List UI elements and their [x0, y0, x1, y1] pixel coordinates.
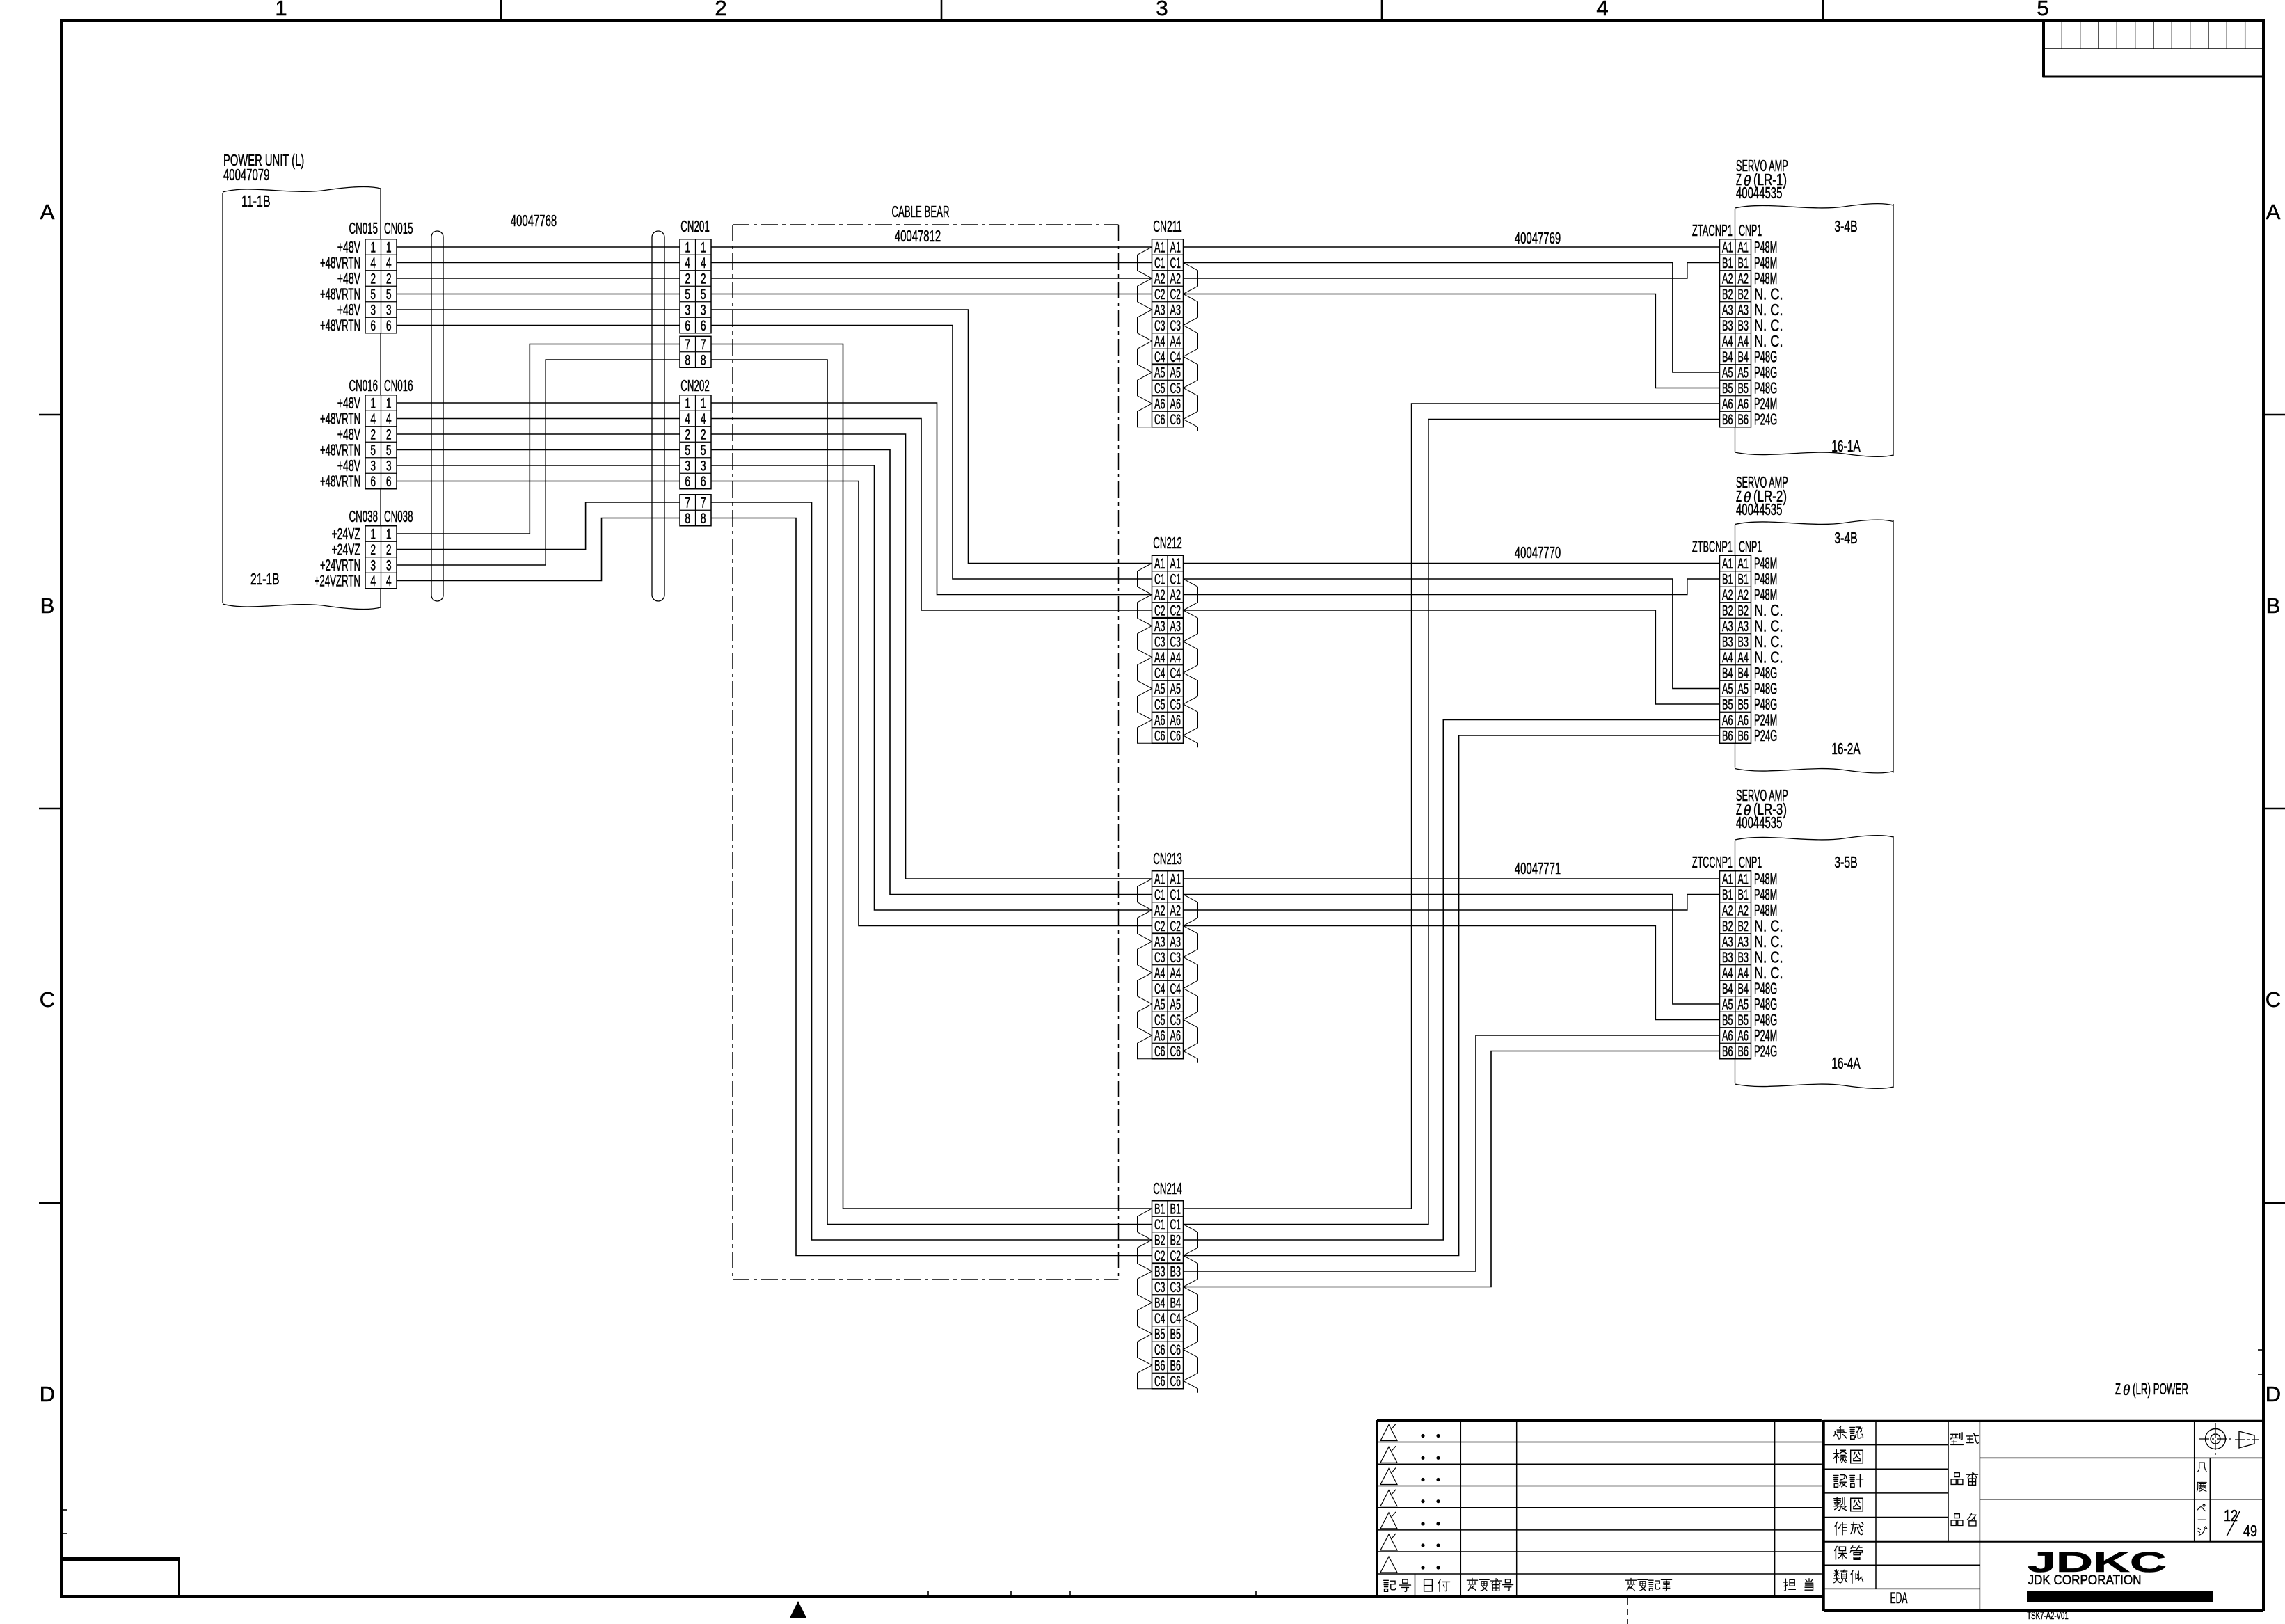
- svg-text:4: 4: [386, 255, 392, 271]
- servo amp Z0(LR-3) box 40044535: [1735, 836, 1894, 840]
- svg-text:C3: C3: [1154, 950, 1165, 966]
- svg-text:A4: A4: [1738, 966, 1749, 982]
- power unit (L) box 40047079: [223, 187, 381, 192]
- svg-text:4: 4: [1596, 0, 1608, 20]
- svg-text:C1: C1: [1170, 887, 1181, 903]
- svg-text:A3: A3: [1170, 303, 1181, 319]
- svg-text:A3: A3: [1154, 303, 1165, 319]
- svg-text:(LR) POWER: (LR) POWER: [2133, 1380, 2188, 1398]
- svg-text:1: 1: [386, 240, 392, 256]
- svg-text:B5: B5: [1722, 1012, 1733, 1028]
- svg-text:CNP1: CNP1: [1739, 221, 1762, 239]
- svg-text:8: 8: [701, 353, 706, 369]
- svg-text:A6: A6: [1722, 713, 1733, 729]
- svg-text:B5: B5: [1170, 1327, 1181, 1343]
- top zone ticks: [500, 0, 502, 21]
- svg-text:A4: A4: [1722, 650, 1733, 666]
- svg-text:A1: A1: [1738, 556, 1749, 572]
- svg-text:B5: B5: [1738, 697, 1749, 713]
- svg-text:7: 7: [685, 337, 690, 353]
- svg-text:C6: C6: [1170, 1044, 1181, 1060]
- svg-text:B4: B4: [1722, 349, 1733, 365]
- svg-text:B6: B6: [1738, 412, 1749, 428]
- svg-text:A3: A3: [1170, 619, 1181, 635]
- label 記号: [1384, 1580, 1396, 1591]
- svg-text:C: C: [40, 987, 55, 1012]
- svg-text:B5: B5: [1722, 697, 1733, 713]
- svg-text:4: 4: [701, 255, 706, 271]
- wire C1 to servo A5: [1184, 263, 1720, 373]
- svg-text:C5: C5: [1170, 381, 1181, 397]
- right border fold ticks: [2258, 1349, 2263, 1351]
- svg-text:A3: A3: [1722, 619, 1733, 635]
- svg-text:3: 3: [386, 558, 392, 574]
- svg-text:A3: A3: [1722, 934, 1733, 950]
- svg-text:B2: B2: [1722, 603, 1733, 619]
- svg-text:CN038: CN038: [349, 507, 379, 525]
- wire C1 to servo A5: [1184, 895, 1720, 1005]
- wires CN201 1,4,2,5 to CN211 A1,C1,A2,C2: [711, 246, 1152, 248]
- svg-text:40044535: 40044535: [1736, 813, 1782, 831]
- svg-text:A1: A1: [1722, 556, 1733, 572]
- wire CN202-2 to CN213 A1: [711, 434, 1152, 879]
- svg-text:4: 4: [685, 255, 690, 271]
- cable bear enclosure 40047812: [733, 224, 1119, 225]
- svg-text:C6: C6: [1170, 1342, 1181, 1358]
- svg-text:A5: A5: [1722, 365, 1733, 381]
- svg-text:C1: C1: [1154, 1217, 1165, 1233]
- svg-text:CN212: CN212: [1153, 534, 1182, 552]
- svg-text:ZTACNP1: ZTACNP1: [1692, 221, 1733, 239]
- svg-text:B4: B4: [1738, 666, 1749, 682]
- wire C2 to servo B5: [1184, 294, 1720, 388]
- svg-text:A4: A4: [1722, 966, 1733, 982]
- CN214 twisted pair symbols: [1138, 1209, 1152, 1389]
- label 品名: [1951, 1514, 1963, 1526]
- svg-text:P24G: P24G: [1754, 1042, 1777, 1060]
- svg-text:4: 4: [386, 573, 392, 589]
- svg-text:6: 6: [386, 474, 392, 490]
- svg-text:C4: C4: [1170, 981, 1181, 997]
- wire CN038-3 to CN201-8: [397, 360, 680, 565]
- svg-text:A3: A3: [1154, 619, 1165, 635]
- svg-text:C6: C6: [1154, 1342, 1165, 1358]
- wire CN214 C1 to LR-1 B6: [1184, 420, 1720, 1225]
- svg-text:A4: A4: [1154, 334, 1165, 350]
- svg-text:A: A: [2266, 200, 2281, 224]
- svg-text:40044535: 40044535: [1736, 500, 1782, 518]
- svg-text:A6: A6: [1738, 713, 1749, 729]
- svg-text:C3: C3: [1170, 950, 1181, 966]
- svg-text:3-5B: 3-5B: [1834, 853, 1857, 871]
- svg-text:40047812: 40047812: [895, 227, 941, 245]
- svg-text:B3: B3: [1738, 635, 1749, 651]
- svg-text:B1: B1: [1738, 572, 1749, 588]
- svg-text:A6: A6: [1170, 713, 1181, 729]
- svg-text:16-1A: 16-1A: [1831, 437, 1861, 455]
- connector CN015 pin table: [365, 239, 397, 333]
- wire A1 straight into servo (level 809.5): [1184, 563, 1720, 564]
- svg-text:B1: B1: [1722, 887, 1733, 903]
- svg-text:A2: A2: [1722, 271, 1733, 287]
- svg-text:Z: Z: [2115, 1380, 2121, 1398]
- revision row triangles and date dots: [1380, 1425, 1397, 1441]
- svg-text:21-1B: 21-1B: [250, 570, 280, 588]
- svg-text:C6: C6: [1154, 1374, 1165, 1390]
- wire CN201-8 to CN214 C1: [711, 360, 1152, 1225]
- svg-text:1: 1: [701, 396, 706, 412]
- label 型式: [1950, 1433, 1963, 1445]
- svg-text:A5: A5: [1170, 681, 1181, 697]
- svg-text:B1: B1: [1738, 887, 1749, 903]
- svg-text:B3: B3: [1738, 318, 1749, 334]
- svg-text:A3: A3: [1738, 303, 1749, 319]
- svg-text:B3: B3: [1154, 1264, 1165, 1280]
- svg-text:C2: C2: [1154, 603, 1165, 619]
- wire CN214 B1 to LR-1 A6: [1184, 404, 1720, 1209]
- svg-text:2: 2: [386, 542, 392, 558]
- svg-text:C1: C1: [1170, 255, 1181, 271]
- svg-text:CN016: CN016: [384, 376, 413, 395]
- svg-text:4: 4: [685, 411, 690, 427]
- svg-text:A: A: [40, 200, 55, 224]
- svg-text:5: 5: [370, 287, 376, 303]
- svg-text:C4: C4: [1154, 1311, 1165, 1327]
- svg-text:B3: B3: [1738, 950, 1749, 966]
- bottom border fold ticks: [927, 1591, 929, 1597]
- svg-text:3: 3: [370, 303, 376, 319]
- svg-text:3: 3: [685, 303, 690, 319]
- svg-text:4: 4: [701, 411, 706, 427]
- svg-text:C5: C5: [1154, 381, 1165, 397]
- svg-text:C2: C2: [1170, 1248, 1181, 1264]
- svg-text:A5: A5: [1170, 365, 1181, 381]
- svg-text:A3: A3: [1154, 934, 1165, 950]
- svg-text:A6: A6: [1738, 1028, 1749, 1044]
- title block revision table: [1377, 1419, 1822, 1422]
- svg-text:C3: C3: [1154, 1280, 1165, 1296]
- svg-text:B2: B2: [1722, 918, 1733, 934]
- wire CN202-1 to CN212 A2: [711, 403, 1152, 595]
- wire A2 to servo B1: [1184, 895, 1720, 911]
- connector CN211 pin table: [1152, 239, 1184, 427]
- svg-text:A2: A2: [1738, 271, 1749, 287]
- wire A2 to servo B1: [1184, 263, 1720, 279]
- svg-text:A2: A2: [1738, 903, 1749, 919]
- svg-text:CN016: CN016: [349, 376, 379, 395]
- svg-text:A4: A4: [1738, 650, 1749, 666]
- svg-text:B3: B3: [1722, 950, 1733, 966]
- svg-text:P24G: P24G: [1754, 726, 1777, 745]
- svg-text:A1: A1: [1154, 872, 1165, 888]
- svg-text:A4: A4: [1738, 334, 1749, 350]
- svg-text:CN015: CN015: [349, 219, 379, 237]
- svg-text:A6: A6: [1722, 397, 1733, 413]
- svg-text:C3: C3: [1170, 318, 1181, 334]
- svg-text:16-2A: 16-2A: [1831, 740, 1861, 758]
- svg-text:B5: B5: [1738, 381, 1749, 397]
- CN213 twisted pair symbols: [1138, 879, 1152, 1059]
- label 製図: [1834, 1497, 1847, 1511]
- wire CN214 C2 to LR-2 B6: [1184, 735, 1720, 1256]
- svg-text:2: 2: [685, 271, 690, 287]
- svg-text:CN211: CN211: [1153, 217, 1182, 235]
- svg-text:+48VRTN: +48VRTN: [320, 317, 360, 335]
- svg-text:A2: A2: [1722, 587, 1733, 603]
- svg-text:A5: A5: [1722, 681, 1733, 697]
- svg-text:C2: C2: [1170, 918, 1181, 934]
- svg-text:ZTBCNP1: ZTBCNP1: [1692, 538, 1733, 556]
- svg-text:5: 5: [701, 287, 706, 303]
- wire CN214 C3 to LR-3 B6: [1184, 1051, 1720, 1287]
- svg-text:A4: A4: [1170, 334, 1181, 350]
- svg-text:P24G: P24G: [1754, 411, 1777, 429]
- wire CN038-1 to CN201-7: [397, 344, 680, 534]
- svg-text:B1: B1: [1722, 255, 1733, 271]
- wire CN202-3 to CN213 A2: [711, 465, 1152, 910]
- svg-text:C: C: [2266, 987, 2281, 1012]
- svg-text:8: 8: [685, 511, 690, 527]
- servo amp Z0(LR-1) box 40044535: [1735, 204, 1894, 208]
- svg-text:A2: A2: [1738, 587, 1749, 603]
- svg-text:CN202: CN202: [680, 376, 710, 395]
- svg-text:C5: C5: [1154, 1012, 1165, 1028]
- svg-text:B5: B5: [1154, 1327, 1165, 1343]
- svg-text:C4: C4: [1170, 666, 1181, 682]
- svg-text:B3: B3: [1722, 318, 1733, 334]
- label 類似: [1834, 1570, 1847, 1583]
- svg-text:C6: C6: [1154, 729, 1165, 745]
- svg-text:B4: B4: [1154, 1296, 1165, 1312]
- svg-text:A3: A3: [1738, 619, 1749, 635]
- CN211 twisted pair symbols: [1138, 247, 1152, 427]
- servo amp Z0(LR-2) box 40044535: [1735, 520, 1894, 524]
- svg-text:16-4A: 16-4A: [1831, 1054, 1861, 1072]
- svg-text:40047768: 40047768: [511, 212, 557, 230]
- svg-text:49: 49: [2243, 1522, 2257, 1540]
- svg-text:C5: C5: [1170, 1012, 1181, 1028]
- svg-text:1: 1: [370, 527, 376, 543]
- svg-text:1: 1: [386, 527, 392, 543]
- svg-text:C4: C4: [1170, 1311, 1181, 1327]
- svg-text:1: 1: [685, 240, 690, 256]
- svg-text:A1: A1: [1722, 240, 1733, 256]
- logo black bar: [2027, 1591, 2213, 1602]
- svg-text:A2: A2: [1170, 903, 1181, 919]
- svg-text:40047771: 40047771: [1515, 859, 1561, 877]
- svg-text:4: 4: [370, 573, 376, 589]
- svg-text:6: 6: [701, 318, 706, 334]
- svg-text:6: 6: [370, 474, 376, 490]
- svg-text:A6: A6: [1170, 1028, 1181, 1044]
- svg-text:C4: C4: [1154, 981, 1165, 997]
- svg-text:C2: C2: [1154, 918, 1165, 934]
- label 担当: [1784, 1579, 1796, 1591]
- third angle projection symbol: [2211, 1434, 2220, 1444]
- svg-text:C1: C1: [1170, 572, 1181, 588]
- svg-text:B6: B6: [1722, 729, 1733, 745]
- svg-text:EDA: EDA: [1890, 1589, 1908, 1607]
- svg-text:B6: B6: [1738, 1044, 1749, 1060]
- wire C1 to servo A5: [1184, 579, 1720, 689]
- svg-text:4: 4: [370, 255, 376, 271]
- svg-text:B6: B6: [1170, 1358, 1181, 1374]
- wire CN201-3 to CN212 A1: [711, 310, 1152, 564]
- svg-text:B4: B4: [1722, 666, 1733, 682]
- bottom-left block: [61, 1558, 179, 1597]
- wire CN214 B2 to LR-2 A6: [1184, 720, 1720, 1241]
- svg-text:B2: B2: [1738, 287, 1749, 303]
- svg-text:A5: A5: [1738, 997, 1749, 1013]
- top-right page index table: [2044, 21, 2263, 77]
- svg-text:C6: C6: [1170, 1374, 1181, 1390]
- svg-text:B1: B1: [1170, 1202, 1181, 1218]
- svg-text:C1: C1: [1170, 1217, 1181, 1233]
- wire CN214 B3 to LR-3 A6: [1184, 1035, 1720, 1271]
- wire CN038-2 to CN202-7: [397, 502, 680, 550]
- wire CN202-8 to CN214 C2: [711, 518, 1152, 1256]
- svg-text:5: 5: [685, 287, 690, 303]
- svg-text:B3: B3: [1722, 635, 1733, 651]
- label 承認: [1834, 1426, 1847, 1439]
- svg-text:A6: A6: [1738, 397, 1749, 413]
- svg-text:D: D: [40, 1382, 55, 1406]
- svg-text:A4: A4: [1154, 650, 1165, 666]
- svg-text:CN015: CN015: [384, 219, 413, 237]
- connector CN213 pin table: [1152, 871, 1184, 1059]
- svg-text:C2: C2: [1154, 287, 1165, 303]
- label 保管: [1835, 1546, 1847, 1559]
- svg-text:1: 1: [685, 396, 690, 412]
- wire A2 to servo B1: [1184, 579, 1720, 595]
- svg-text:A3: A3: [1722, 303, 1733, 319]
- svg-text:3: 3: [386, 459, 392, 475]
- svg-text:B2: B2: [1722, 287, 1733, 303]
- svg-text:3: 3: [685, 459, 690, 475]
- svg-text:A1: A1: [1170, 556, 1181, 572]
- svg-text:TSK7-A2-V01: TSK7-A2-V01: [2027, 1610, 2068, 1622]
- svg-text:1: 1: [701, 240, 706, 256]
- fold mark dashed line below title block: [1627, 1598, 1628, 1624]
- svg-text:A6: A6: [1154, 397, 1165, 413]
- svg-text:5: 5: [701, 443, 706, 459]
- svg-text:CN214: CN214: [1153, 1179, 1182, 1197]
- svg-text:A5: A5: [1154, 997, 1165, 1013]
- svg-text:D: D: [2266, 1382, 2281, 1406]
- svg-text:40044535: 40044535: [1736, 184, 1782, 202]
- svg-text:B2: B2: [1170, 1233, 1181, 1249]
- svg-text:C4: C4: [1154, 666, 1165, 682]
- svg-text:A2: A2: [1722, 903, 1733, 919]
- svg-text:B: B: [2266, 594, 2281, 618]
- svg-text:2: 2: [701, 427, 706, 443]
- svg-text:C4: C4: [1170, 349, 1181, 365]
- svg-text:2: 2: [386, 427, 392, 443]
- svg-text:6: 6: [685, 474, 690, 490]
- connector CN212 pin table: [1152, 555, 1184, 743]
- svg-text:JDK CORPORATION: JDK CORPORATION: [2028, 1573, 2142, 1588]
- wire C2 to servo B5: [1184, 610, 1720, 704]
- cable 40047768 left sleeve: [431, 231, 443, 601]
- connector CN214 pin table: [1152, 1201, 1184, 1389]
- svg-text:5: 5: [386, 443, 392, 459]
- svg-text:B: B: [40, 594, 55, 618]
- svg-text:C2: C2: [1170, 287, 1181, 303]
- svg-text:11-1B: 11-1B: [241, 192, 271, 210]
- svg-text:3-4B: 3-4B: [1834, 529, 1857, 547]
- svg-text:A1: A1: [1738, 872, 1749, 888]
- svg-text:B6: B6: [1722, 1044, 1733, 1060]
- svg-text:3: 3: [1156, 0, 1168, 20]
- svg-text:2: 2: [370, 427, 376, 443]
- page ページ cell: [2198, 1504, 2206, 1511]
- svg-text:6: 6: [685, 318, 690, 334]
- svg-text:+48VRTN: +48VRTN: [320, 472, 360, 491]
- svg-text:A4: A4: [1722, 334, 1733, 350]
- svg-text:A5: A5: [1738, 681, 1749, 697]
- svg-text:B5: B5: [1738, 1012, 1749, 1028]
- svg-text:C2: C2: [1170, 603, 1181, 619]
- svg-text:CN201: CN201: [680, 217, 710, 235]
- svg-text:40047079: 40047079: [223, 166, 269, 184]
- svg-text:CN213: CN213: [1153, 850, 1182, 868]
- svg-text:4: 4: [370, 411, 376, 427]
- svg-text:C5: C5: [1170, 697, 1181, 713]
- servo LR-3 pin table: [1720, 871, 1751, 1059]
- svg-text:A2: A2: [1154, 271, 1165, 287]
- svg-text:B4: B4: [1170, 1296, 1181, 1312]
- svg-text:40047769: 40047769: [1515, 229, 1561, 247]
- svg-text:B2: B2: [1154, 1233, 1165, 1249]
- wire CN202-4 to CN212 C2: [711, 419, 1152, 611]
- svg-text:B4: B4: [1738, 349, 1749, 365]
- svg-text:C6: C6: [1154, 412, 1165, 428]
- svg-text:A2: A2: [1154, 903, 1165, 919]
- svg-text:A1: A1: [1170, 240, 1181, 256]
- svg-text:B6: B6: [1722, 412, 1733, 428]
- svg-text:+24VZRTN: +24VZRTN: [315, 572, 360, 590]
- svg-text:C3: C3: [1154, 635, 1165, 651]
- svg-text:A2: A2: [1154, 587, 1165, 603]
- svg-text:40047770: 40047770: [1515, 543, 1561, 562]
- svg-text:ZTCCNP1: ZTCCNP1: [1692, 853, 1733, 871]
- svg-text:A2: A2: [1170, 271, 1181, 287]
- svg-text:A5: A5: [1738, 365, 1749, 381]
- svg-text:B2: B2: [1738, 918, 1749, 934]
- svg-text:1: 1: [386, 396, 392, 412]
- svg-text:B1: B1: [1154, 1202, 1165, 1218]
- svg-text:5: 5: [2037, 0, 2048, 20]
- left/right zone ticks: [39, 414, 61, 416]
- svg-text:5: 5: [685, 443, 690, 459]
- svg-text:B3: B3: [1170, 1264, 1181, 1280]
- svg-text:B4: B4: [1738, 981, 1749, 997]
- svg-text:B6: B6: [1738, 729, 1749, 745]
- svg-text:A1: A1: [1722, 872, 1733, 888]
- wire CN202-6 to CN213 C2: [711, 481, 1152, 926]
- wire CN201-7 to CN214 B1: [711, 344, 1152, 1209]
- wire C2 to servo B5: [1184, 926, 1720, 1020]
- svg-text:A1: A1: [1154, 556, 1165, 572]
- svg-text:C3: C3: [1170, 1280, 1181, 1296]
- svg-text:A4: A4: [1154, 966, 1165, 982]
- wire A1 straight into servo (level 1263): [1184, 878, 1720, 879]
- svg-text:B1: B1: [1738, 255, 1749, 271]
- bottom center fold triangle: [790, 1601, 806, 1618]
- svg-text:A5: A5: [1154, 681, 1165, 697]
- svg-text:2: 2: [685, 427, 690, 443]
- svg-text:C3: C3: [1154, 318, 1165, 334]
